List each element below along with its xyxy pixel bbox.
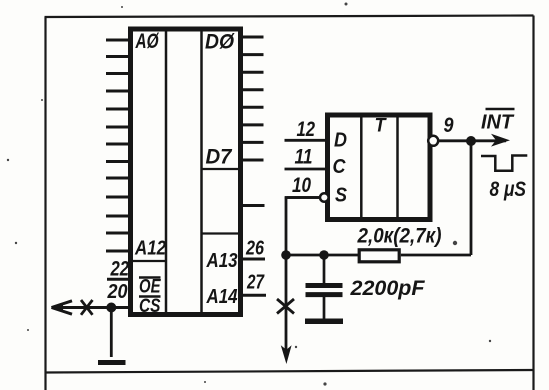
negative pulse waveform symbol [481, 156, 527, 171]
ground (capacitor) [305, 318, 343, 324]
svg-text:20: 20 [107, 281, 128, 303]
svg-text:D: D [334, 130, 347, 152]
wire: stub going off-page down with break mark [277, 255, 294, 364]
U2 S inversion bubble [320, 193, 329, 202]
svg-text:8 μS: 8 μS [490, 178, 527, 201]
node: capacitor junction [319, 250, 329, 260]
U2 pin 10 wire (S input) [287, 196, 320, 199]
resistor R 2,0k(2,7k) [359, 250, 399, 262]
U1 pin 27 stub [243, 294, 267, 297]
U1 pin 22 stub [107, 278, 130, 281]
svg-text:AØ: AØ [135, 30, 159, 53]
wire: feedback from output junction down [470, 141, 473, 255]
wire: bottom net left segment [286, 254, 359, 257]
U1 OE input label (active low) [139, 277, 162, 298]
wire: S input down to bottom net [285, 196, 320, 256]
svg-text:A12: A12 [134, 238, 166, 260]
U1 data pins D0-D7 (right stubs) [243, 37, 264, 160]
svg-text:2200pF: 2200pF [349, 277, 425, 300]
node: ground junction on CS net [106, 303, 116, 313]
net label INT (active low) [481, 109, 515, 134]
svg-text:A13: A13 [206, 250, 238, 272]
U1 unlabeled pin stub [243, 204, 265, 207]
node: output junction [466, 136, 476, 146]
U2 pin 12 wire (D input) [285, 139, 326, 142]
U1 pin 26 stub [243, 258, 266, 261]
svg-text:D7: D7 [206, 146, 233, 169]
U1 address pins A0-A12 (left stubs) [106, 40, 129, 251]
wire: CS/OE net with off-page arrow [51, 300, 130, 315]
svg-text:S: S [335, 185, 348, 207]
flip-flop body (T trigger) [328, 115, 431, 220]
svg-text:22: 22 [110, 258, 130, 281]
svg-text:27: 27 [246, 272, 264, 294]
U2 output inversion bubble [428, 136, 438, 146]
svg-text:C: C [333, 156, 346, 178]
svg-text:DØ: DØ [205, 31, 235, 54]
wire: U2 output to INT arrow [438, 139, 506, 142]
svg-text:2,0к(2,7к): 2,0к(2,7к) [357, 225, 442, 248]
U1 CS input label (active low) [139, 296, 161, 317]
wire: bottom net right segment [401, 254, 471, 257]
ground (CS net) [98, 360, 126, 365]
wire: junction down to ground [110, 308, 113, 358]
svg-text:9: 9 [444, 114, 454, 137]
node: junction on S net [281, 250, 291, 260]
svg-text:CS: CS [139, 296, 161, 317]
U2 pin 11 wire (C input) [285, 168, 326, 171]
INT arrowhead [491, 134, 510, 147]
svg-text:10: 10 [292, 174, 311, 197]
capacitor C 2200pF [306, 255, 343, 319]
svg-text:INT: INT [481, 112, 515, 134]
svg-text:26: 26 [245, 238, 265, 260]
svg-text:12: 12 [297, 118, 316, 141]
svg-text:OE: OE [139, 277, 162, 298]
svg-text:11: 11 [295, 146, 313, 169]
svg-text:A14: A14 [206, 286, 238, 308]
svg-text:T: T [375, 116, 387, 137]
memory IC body [131, 29, 241, 315]
